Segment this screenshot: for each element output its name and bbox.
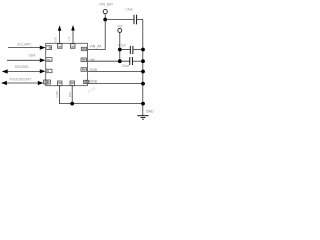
svg-text:VDD: VDD <box>54 36 58 43</box>
svg-text:VIN_AT: VIN_AT <box>90 45 103 49</box>
svg-text:SDO/SEL: SDO/SEL <box>15 65 30 69</box>
svg-text:SCL/APC: SCL/APC <box>17 42 32 46</box>
svg-text:VIN_BAT: VIN_BAT <box>99 3 113 7</box>
svg-text:SDA: SDA <box>29 53 37 57</box>
svg-text:VM: VM <box>117 24 122 28</box>
svg-text:PGOOD/STAT: PGOOD/STAT <box>10 78 32 82</box>
svg-text:GND: GND <box>90 68 98 72</box>
svg-text:GND: GND <box>55 91 59 97</box>
svg-text:Cbat: Cbat <box>122 64 129 68</box>
svg-text:GND: GND <box>90 80 98 84</box>
svg-text:4.7µF: 4.7µF <box>118 43 126 47</box>
svg-text:VM: VM <box>90 58 95 62</box>
svg-text:BAT: BAT <box>68 91 72 97</box>
svg-text:LX: LX <box>67 37 71 41</box>
svg-text:GND: GND <box>146 109 154 113</box>
svg-text:Cbat: Cbat <box>126 8 133 12</box>
